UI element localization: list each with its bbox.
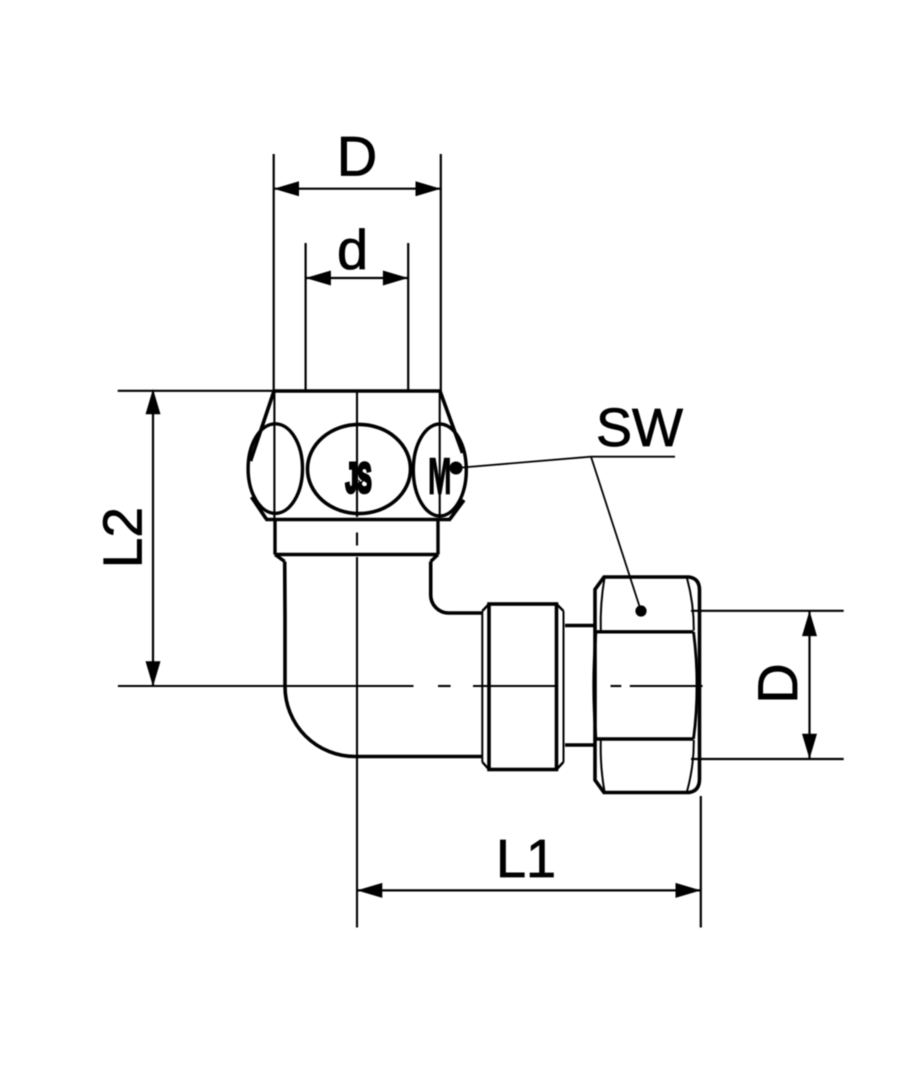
svg-text:M: M bbox=[428, 448, 452, 506]
svg-text:SW: SW bbox=[596, 398, 683, 458]
svg-text:D: D bbox=[337, 125, 377, 188]
dimension D right top arrow bbox=[802, 611, 817, 636]
right nut outline bbox=[595, 577, 700, 793]
svg-text:d: d bbox=[337, 218, 368, 281]
dimension d dimension line bbox=[306, 277, 409, 279]
neck between washer and right nut bbox=[565, 626, 595, 746]
right nut top facet line bbox=[596, 630, 694, 633]
dimension D right dimension line bbox=[808, 611, 810, 759]
collar bottom edge bbox=[275, 553, 438, 556]
right nut bottom facet line bbox=[596, 737, 694, 740]
right nut middle face left arc bbox=[594, 632, 596, 739]
leader dot on top nut bbox=[450, 462, 463, 475]
top hex nut top edge bbox=[274, 389, 440, 393]
dimension D top right arrow bbox=[416, 181, 441, 196]
elbow outer contour bbox=[285, 562, 482, 757]
collar left chamfer bbox=[275, 555, 285, 562]
dimension L2 top arrow bbox=[146, 389, 161, 414]
dimension d left arrow bbox=[306, 271, 331, 286]
washer left face line bbox=[481, 611, 483, 762]
dimension D right bottom arrow bbox=[802, 734, 817, 759]
top hex nut right lower slant bbox=[450, 500, 464, 519]
washer right face line bbox=[563, 611, 565, 762]
dimension L2 top extension line bbox=[118, 390, 275, 392]
elbow inner contour bbox=[431, 562, 482, 614]
top hex nut outline bbox=[251, 391, 465, 520]
leader dot on right nut bbox=[635, 605, 646, 616]
svg-text:D: D bbox=[746, 663, 809, 703]
right nut bottom face side arcs bbox=[601, 740, 605, 792]
top hex nut right upper slant bbox=[440, 391, 463, 453]
right nut middle face right arc bbox=[694, 632, 698, 739]
dimension L1 right arrow bbox=[676, 883, 701, 898]
dimension L2 bottom arrow bbox=[146, 661, 161, 686]
dimension d extension lines bbox=[306, 243, 409, 391]
dimension L1 dimension line bbox=[357, 889, 701, 891]
collar left edge bbox=[273, 521, 276, 555]
top hex nut left upper slant bbox=[251, 391, 275, 461]
dimension D top dimension line bbox=[274, 188, 441, 190]
leader SW bbox=[462, 457, 675, 611]
dimension L1 left arrow bbox=[357, 883, 382, 898]
dimension d right arrow bbox=[383, 271, 408, 286]
top hex nut inner face edge right bbox=[439, 392, 441, 518]
top hex nut left face oval bbox=[248, 424, 302, 514]
dimension D top left arrow bbox=[274, 181, 299, 196]
dimension D right extension lines bbox=[691, 611, 844, 759]
washer chamfers bbox=[482, 604, 563, 770]
top hex nut center face oval bbox=[308, 424, 411, 513]
svg-text:JS: JS bbox=[354, 468, 364, 488]
dimension D top extension lines bbox=[274, 154, 441, 391]
collar right chamfer bbox=[431, 555, 438, 562]
top hex nut bottom edge bbox=[265, 518, 451, 522]
right nut top face side arcs bbox=[601, 578, 605, 631]
svg-text:L2: L2 bbox=[92, 507, 154, 568]
collar right edge bbox=[436, 521, 439, 555]
horizontal centerline bbox=[118, 685, 703, 687]
svg-text:L1: L1 bbox=[496, 829, 556, 889]
dimension L2 dimension line bbox=[152, 391, 154, 686]
vertical centerline bbox=[356, 392, 358, 928]
top hex nut left lower slant bbox=[252, 497, 267, 519]
dimension L1 right extension line bbox=[700, 796, 702, 928]
washer body bbox=[489, 604, 557, 770]
top hex nut right face oval bbox=[413, 424, 466, 516]
top hex nut inner face edge left bbox=[273, 392, 275, 518]
collar below top nut bbox=[275, 521, 438, 562]
